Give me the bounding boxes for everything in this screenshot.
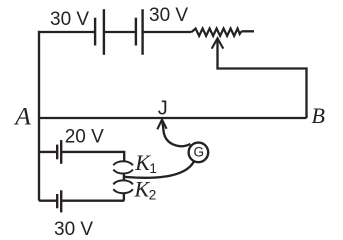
wire: rheostat right stub (242, 30, 255, 32)
jockey arrowhead at J (157, 120, 166, 130)
rheostat zigzag element (192, 29, 242, 36)
battery 20V: long plate (60, 140, 62, 164)
wire: 20V branch left lead (39, 151, 57, 153)
wire: 30V bottom branch right segment (61, 200, 124, 202)
svg-text:1: 1 (149, 161, 157, 176)
battery 30V bottom: long plate (60, 190, 62, 212)
svg-text:G: G (194, 145, 205, 160)
key K2 upper contact arc (113, 180, 132, 184)
key K1 lower contact arc (113, 170, 132, 174)
wire: curved lead from jockey to galvanometer (162, 120, 190, 146)
svg-text:2: 2 (149, 188, 157, 203)
battery 30V bottom: short plate (56, 194, 58, 208)
battery 20V: short plate (56, 145, 58, 160)
wire: left vertical A rail (38, 31, 40, 201)
wire: top lead from A to battery (38, 31, 95, 33)
svg-text:30 V: 30 V (149, 5, 188, 26)
wire: 20V branch to key K1 (61, 152, 124, 161)
svg-text:J: J (158, 97, 168, 119)
battery cell E1 30V: long plate (103, 9, 105, 55)
svg-text:30 V: 30 V (54, 219, 93, 238)
svg-text:30 V: 30 V (50, 9, 89, 30)
wire: potentiometer wire A to B (38, 117, 307, 119)
battery cell E1 30V: short plate (94, 18, 96, 46)
wire: bottom stub from K2 (123, 193, 125, 201)
key K1 upper contact arc (113, 161, 132, 165)
wire: 30V bottom branch left lead (39, 200, 57, 202)
battery cell E2 30V: long plate (141, 9, 143, 55)
galvanometer G circle (189, 143, 209, 163)
wire: curved lead from key middle junction to galvanometer (124, 161, 194, 177)
svg-text:20 V: 20 V (65, 127, 104, 148)
key K2 lower contact arc (113, 189, 132, 193)
wire: between cells (104, 31, 136, 33)
svg-text:A: A (13, 102, 31, 131)
battery cell E2 30V: short plate (135, 18, 137, 46)
wire: middle stub between K1 and K2 (123, 173, 125, 181)
svg-text:B: B (312, 103, 325, 128)
rheostat wiper arrowhead (212, 38, 224, 48)
wire: cell to rheostat (143, 31, 192, 33)
rheostat wiper shaft and wire to right rail down to B (218, 40, 307, 119)
